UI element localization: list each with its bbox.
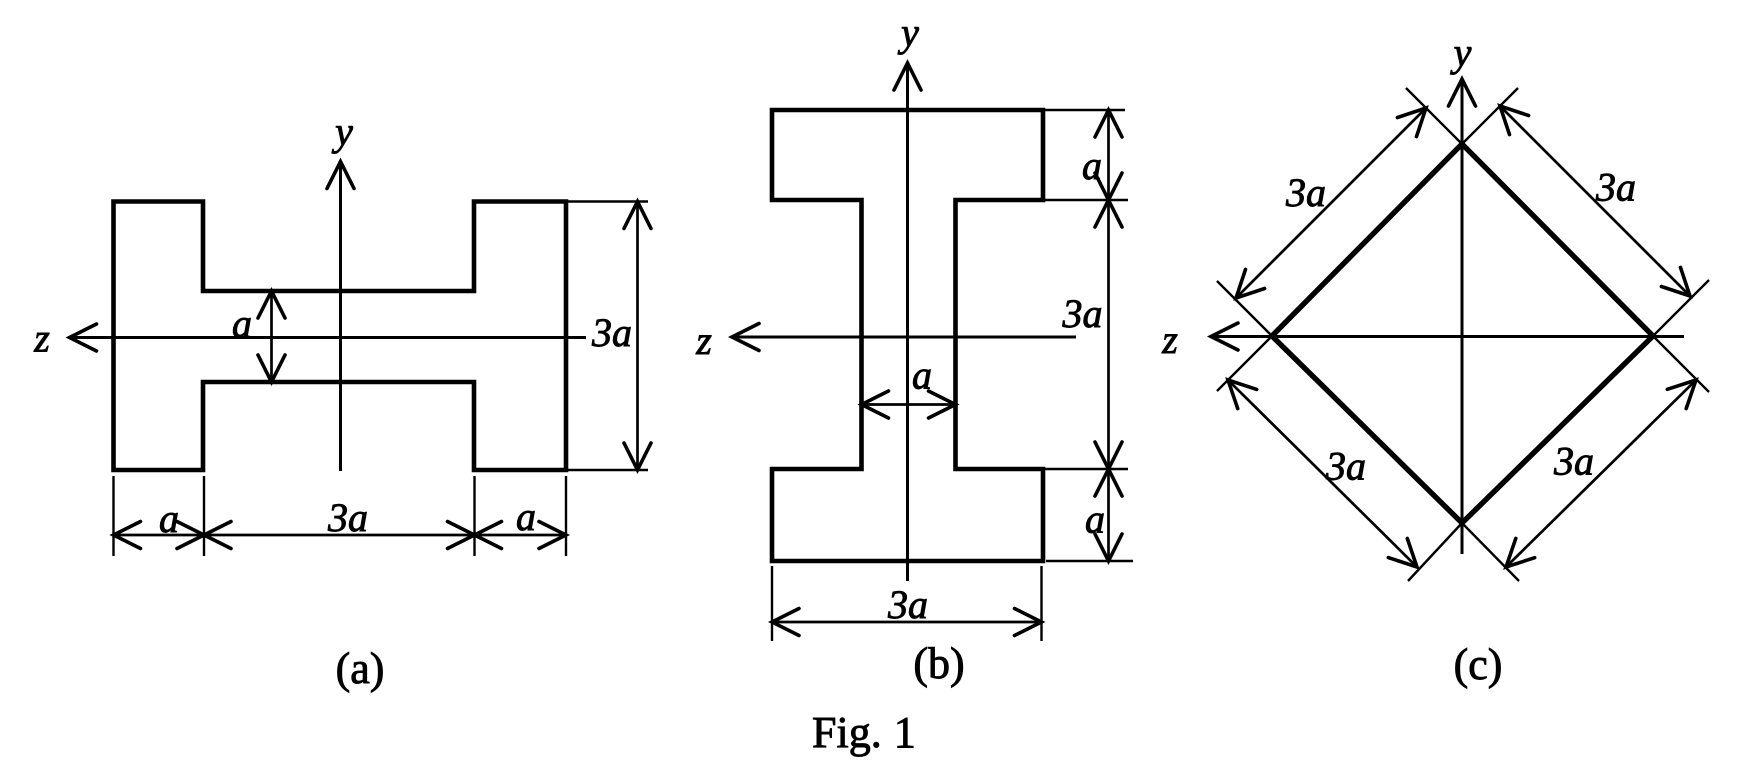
svg-text:a: a xyxy=(516,494,536,539)
svg-text:3a: 3a xyxy=(327,495,368,540)
svg-text:z: z xyxy=(695,318,712,363)
svg-text:a: a xyxy=(159,496,179,541)
svg-text:y: y xyxy=(897,10,919,55)
svg-text:(c): (c) xyxy=(1454,640,1503,689)
svg-text:3a: 3a xyxy=(1062,291,1103,336)
svg-text:(a): (a) xyxy=(336,644,385,693)
svg-text:3a: 3a xyxy=(1285,170,1326,215)
svg-text:y: y xyxy=(1450,30,1472,75)
svg-text:a: a xyxy=(1085,497,1105,542)
svg-text:3a: 3a xyxy=(1595,165,1636,210)
svg-text:a: a xyxy=(232,301,252,346)
svg-text:y: y xyxy=(331,109,353,154)
svg-text:3a: 3a xyxy=(591,310,632,355)
svg-text:(b): (b) xyxy=(913,639,964,688)
svg-text:3a: 3a xyxy=(1325,444,1366,489)
svg-text:z: z xyxy=(1161,317,1178,362)
svg-text:a: a xyxy=(912,353,932,398)
svg-text:z: z xyxy=(33,316,50,361)
svg-text:a: a xyxy=(1082,143,1102,188)
svg-text:3a: 3a xyxy=(1553,439,1594,484)
svg-text:Fig. 1: Fig. 1 xyxy=(812,708,916,757)
svg-text:3a: 3a xyxy=(887,582,928,627)
